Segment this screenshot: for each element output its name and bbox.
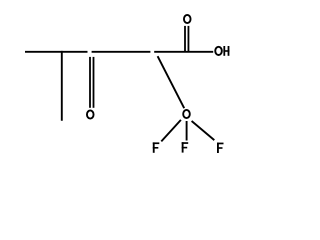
wire: bond C2 down methyl (vertical)	[61, 51, 63, 121]
node: ketone oxygen label O	[87, 110, 94, 118]
node: fluorine label F2	[182, 142, 189, 152]
wire: bond O to F1 (down-left diagonal)	[161, 120, 181, 141]
node: fluorine label F3	[217, 143, 224, 153]
wire: bond CH3 to C2 (left horizontal)	[25, 51, 88, 53]
wire: bond C3 down to ether O (diagonal)	[158, 56, 185, 108]
wire: bond O to F3 (down-right diagonal)	[192, 121, 215, 140]
wire: carboxyl C=O double bond line 1	[184, 26, 186, 52]
node: carboxyl oxygen label O	[184, 15, 191, 23]
wire: bond O to F2 (vertical)	[186, 121, 188, 141]
node: fluorine label F1	[153, 142, 160, 152]
wire: bond carbonyl C to C3 (middle horizontal)	[92, 51, 151, 53]
wire: carboxyl C=O double bond line 2	[187, 26, 189, 52]
node: ether oxygen label O	[183, 110, 190, 118]
node: hydroxyl label OH	[215, 46, 229, 56]
wire: ketone C=O double bond line 2	[93, 57, 95, 108]
wire: bond C3 to carboxyl C and on to OH (right horizontal)	[154, 51, 213, 53]
wire: ketone C=O double bond line 1	[89, 57, 91, 108]
